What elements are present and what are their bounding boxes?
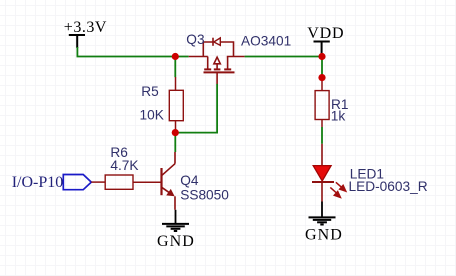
svg-text:I/O-P10: I/O-P10 — [12, 174, 64, 191]
svg-text:4.7K: 4.7K — [110, 158, 138, 173]
wire R1 to LED1 — [321, 127, 323, 144]
wire gate net: R5 bottom node to Q3 gate — [175, 84, 217, 133]
gate plate — [204, 71, 235, 73]
net flag I/O-P10 — [12, 174, 92, 191]
svg-text:10K: 10K — [140, 107, 164, 122]
svg-text:R5: R5 — [141, 84, 159, 99]
svg-text:SS8050: SS8050 — [180, 188, 229, 203]
wire +3.3V rail to Q3 source — [77, 47, 188, 57]
wire R5 top — [174, 57, 176, 78]
resistor R5 — [169, 77, 183, 133]
drain pin — [227, 56, 245, 58]
wire flag to R6 — [91, 181, 105, 183]
emission arrows — [330, 182, 346, 197]
svg-text:Q4: Q4 — [180, 173, 199, 188]
channel stubs — [207, 57, 209, 70]
transistor Q3 P-MOSFET — [189, 38, 245, 84]
svg-text:GND: GND — [157, 233, 195, 250]
junction dot R5/Q4 collector node — [172, 129, 179, 136]
power flag VDD — [307, 25, 344, 54]
svg-text:AO3401: AO3401 — [241, 34, 291, 49]
wire Q3 drain to VDD node — [245, 56, 322, 58]
LED LED1 — [312, 144, 346, 202]
body diode loop — [203, 42, 213, 57]
source pin — [189, 56, 208, 58]
svg-text:+3.3V: +3.3V — [64, 19, 107, 36]
power flag +3.3V — [64, 19, 107, 48]
ground GND right — [305, 202, 343, 244]
svg-text:LED-0603_R: LED-0603_R — [349, 179, 428, 194]
transistor Q4 NPN — [162, 152, 176, 210]
svg-text:Q3: Q3 — [186, 32, 205, 47]
gate lead — [216, 72, 218, 84]
resistor R6 — [105, 175, 161, 189]
wire node down to Q4 collector — [174, 133, 176, 152]
junction dot R1 top — [318, 74, 325, 81]
svg-text:1k: 1k — [331, 108, 346, 123]
wire VDD node down to R1 — [321, 57, 323, 78]
svg-text:GND: GND — [305, 227, 343, 244]
svg-text:VDD: VDD — [307, 25, 344, 42]
ground GND left — [157, 210, 195, 250]
junction dot VDD node — [318, 53, 325, 60]
resistor R1 — [315, 78, 329, 127]
junction dot node +3.3V/R5 — [172, 53, 179, 60]
